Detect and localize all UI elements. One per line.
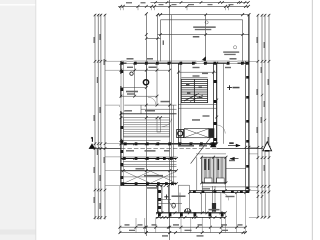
- terrace outline: [146, 15, 249, 62]
- top dim numbers: [126, 2, 132, 3]
- entrance arched door: [184, 209, 191, 212]
- interior wall h113.8 dark: [121, 113, 177, 115]
- hatch divider: [213, 157, 215, 183]
- stem wall: [157, 186, 159, 213]
- section line solid ends: [95, 147, 121, 149]
- dim 850 smudge: [193, 36, 200, 38]
- lower-left wall band: [121, 157, 177, 159]
- landing line y72: [178, 71, 216, 73]
- staircase upper flight hatch: [181, 79, 207, 102]
- strip top white line: [0, 4, 36, 6]
- window left wall 2: [120, 98, 124, 112]
- terrace vertical hatch box: [202, 157, 226, 183]
- mid lines y161 y164 y166: [123, 161, 176, 163]
- window top wall 2: [197, 60, 204, 64]
- bottom extension lines: [105, 61, 258, 232]
- interior wall h96.2: [121, 95, 157, 97]
- bottom dimension line lower: [119, 232, 246, 234]
- interior dim line y70: [121, 69, 170, 71]
- window top wall 1: [127, 60, 134, 64]
- page right edge line: [311, 0, 313, 240]
- window top wall 3: [230, 60, 238, 64]
- level mark plus lower: [164, 195, 168, 200]
- top dimension line 2: [151, 1, 249, 3]
- fixture small circle: [130, 72, 133, 75]
- right extension lines: [249, 60, 258, 62]
- right dim numbers: [257, 37, 258, 43]
- interior wall h87.6: [121, 87, 147, 89]
- hatch below stubs: [202, 183, 225, 191]
- fixture spiral circle: [143, 80, 148, 85]
- terrace label 2 circle: [234, 46, 237, 49]
- window left wall 1: [120, 74, 124, 86]
- left dim ticks: [94, 14, 107, 219]
- mid wall: [121, 143, 217, 145]
- extra bottom wall crosses: [156, 184, 226, 219]
- wall stub dark: [209, 128, 215, 138]
- right dim mid ticks: [261, 94, 263, 96]
- strip bottom shadow smudge: [0, 230, 36, 235]
- stair2 top line: [121, 117, 161, 119]
- right dimension line group: [257, 15, 259, 219]
- stairwell right wall: [213, 63, 215, 144]
- terrace mini dim: [146, 37, 160, 39]
- stairwell left wall: [177, 63, 179, 144]
- B arrow lower: [230, 157, 235, 161]
- bottom dimension line upper: [119, 226, 246, 228]
- section dashed line: [121, 147, 217, 149]
- A arrow: [228, 145, 240, 147]
- interior wall v146.5: [146, 63, 148, 87]
- level mark plus: [227, 85, 232, 90]
- x-band text: [144, 175, 163, 177]
- interior wall v134.7: [134, 63, 136, 96]
- chimney: [212, 186, 214, 213]
- strip right boundary: [35, 0, 37, 240]
- long grid vertical x169.7: [169, 0, 171, 240]
- top dim extension stubs: [121, 6, 229, 10]
- top dimension line: [118, 5, 249, 7]
- hatch dark streaks: [205, 159, 207, 170]
- interior wall h105: [121, 104, 177, 106]
- door arc bedroom: [148, 97, 156, 105]
- door arc hall: [162, 117, 172, 127]
- hatch left vertical: [196, 157, 198, 191]
- top wall: [121, 62, 249, 64]
- terrace center axis: [205, 15, 207, 62]
- door arc bottom right: [221, 193, 229, 201]
- right dim ticks: [257, 14, 271, 219]
- stair2 bottom landing line: [121, 139, 161, 141]
- chimney dark fill: [212, 203, 216, 212]
- gray app strip left: [0, 0, 36, 240]
- bottom-left closure: [121, 185, 162, 187]
- wc fixture: [172, 203, 176, 208]
- door arc stairwell: [217, 125, 226, 134]
- wall column fills: [120, 62, 248, 217]
- entrance arrow: [201, 56, 206, 61]
- bottom rooms: [167, 186, 169, 213]
- shaft box with circle: [177, 130, 184, 138]
- interior wall v141: [140, 105, 142, 114]
- left extension lines: [105, 60, 121, 62]
- top dim2 ticks: [154, 1, 157, 4]
- bottom dim ticks: [119, 226, 247, 234]
- section marker right triangle: [263, 142, 272, 151]
- landing line y104.7: [178, 104, 216, 106]
- section diagonal: [191, 136, 212, 163]
- landing line y77.6: [181, 77, 207, 79]
- top dim ticks: [119, 1, 250, 8]
- stair arrow diagonal: [184, 94, 199, 102]
- bottom dim numbers: [125, 224, 130, 225]
- terrace dim line: [158, 34, 249, 36]
- left wall: [120, 61, 122, 186]
- stairwell door line: [222, 63, 224, 144]
- landing line y108.2: [178, 107, 216, 109]
- left dim numbers: [94, 37, 95, 43]
- terrace label 2 text: [223, 51, 239, 52]
- x-band bottom wall: [121, 183, 177, 185]
- x-braced beam bottom-left: [121, 171, 177, 183]
- bottom wall: [156, 212, 225, 214]
- terrace label 1 text: [193, 26, 216, 28]
- bottom right corridor wall: [190, 190, 249, 192]
- section marker 1 left: [89, 143, 96, 149]
- corridor thin line: [202, 186, 249, 188]
- terrace label 1 circle: [205, 21, 208, 24]
- x-band top wall: [121, 170, 177, 172]
- left dimension line group: [94, 14, 96, 220]
- right wall inner: [245, 61, 247, 193]
- long grid vertical x146: [145, 14, 147, 236]
- section label 1: [91, 137, 92, 142]
- interior wall v157: [156, 63, 158, 105]
- section marker mid arrowhead: [210, 141, 217, 147]
- closet boxes: [204, 178, 224, 183]
- x-braced beam center: [184, 129, 208, 138]
- hall wall pair: [171, 15, 173, 186]
- left wall thin line: [122, 61, 124, 186]
- intersection cross ticks: [120, 5, 251, 234]
- stair step number noise: [186, 84, 202, 98]
- door arc bottom left: [168, 200, 175, 207]
- dim 60 smudge: [163, 40, 164, 45]
- window dim texts above top wall: [127, 58, 134, 59]
- hatch bottom wall: [202, 182, 226, 184]
- interior wall h109: [141, 108, 177, 110]
- top wall upper thin line: [121, 60, 249, 62]
- terrace hatch thin top line: [196, 153, 226, 155]
- corridor mid line: [226, 167, 246, 169]
- right wall outer: [248, 15, 250, 193]
- staircase lower flight: [124, 118, 170, 137]
